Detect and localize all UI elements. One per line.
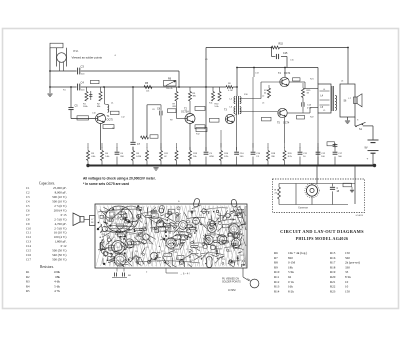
svg-text:0·1M: 0·1M — [136, 156, 141, 158]
svg-text:200 (4 V.): 200 (4 V.) — [54, 208, 67, 212]
svg-text:C11: C11 — [26, 231, 31, 235]
svg-text:R18: R18 — [330, 265, 336, 269]
svg-text:150: 150 — [345, 289, 350, 293]
svg-text:9V: 9V — [365, 146, 368, 149]
svg-text:R21: R21 — [330, 280, 336, 284]
svg-text:10: 10 — [345, 280, 349, 284]
svg-text:R3: R3 — [26, 280, 30, 284]
svg-text:OC75: OC75 — [107, 119, 114, 122]
svg-text:PHILIPS MODEL AG4026: PHILIPS MODEL AG4026 — [296, 236, 349, 241]
svg-text:330: 330 — [345, 265, 350, 269]
svg-text:540 (50 V.): 540 (50 V.) — [52, 253, 66, 257]
svg-text:C13: C13 — [26, 240, 32, 244]
svg-text:R6: R6 — [274, 251, 278, 255]
svg-text:10 M52: 10 M52 — [228, 290, 236, 292]
svg-text:C15: C15 — [283, 52, 288, 55]
svg-text:R8: R8 — [274, 261, 278, 265]
svg-text:68k: 68k — [55, 275, 60, 279]
svg-text:R15: R15 — [279, 43, 284, 46]
svg-text:0·1M: 0·1M — [288, 261, 295, 265]
svg-text:8·2k: 8·2k — [345, 275, 351, 279]
svg-text:AG4026: AG4026 — [355, 214, 364, 217]
svg-text:10k: 10k — [146, 91, 149, 93]
svg-text:0·15: 0·15 — [61, 213, 67, 217]
svg-text:R16: R16 — [330, 256, 336, 260]
svg-text:R17: R17 — [330, 261, 336, 265]
svg-text:33: 33 — [345, 270, 349, 274]
svg-text:R14: R14 — [274, 289, 280, 293]
svg-text:16k + 4k (log.): 16k + 4k (log.) — [288, 251, 307, 255]
svg-text:SOLDER POINTS: SOLDER POINTS — [222, 282, 241, 284]
svg-text:C16: C16 — [26, 253, 32, 257]
svg-text:500 (50 V.): 500 (50 V.) — [52, 257, 66, 261]
svg-text:C3: C3 — [81, 64, 85, 68]
svg-text:8·2k: 8·2k — [288, 289, 294, 293]
svg-text:500 (50 V.): 500 (50 V.) — [52, 249, 66, 253]
svg-text:R13: R13 — [274, 285, 280, 289]
svg-text:5·6k: 5·6k — [288, 270, 294, 274]
svg-text:2k (pre-set): 2k (pre-set) — [345, 261, 360, 265]
svg-text:Governor: Governor — [298, 206, 309, 209]
svg-text:OC74: OC74 — [284, 72, 291, 75]
svg-text:C5: C5 — [26, 204, 30, 208]
svg-text:+: + — [367, 156, 369, 160]
svg-text:2·5 (6 V.): 2·5 (6 V.) — [54, 217, 66, 221]
svg-text:R5: R5 — [26, 289, 30, 293]
svg-text:C4: C4 — [81, 80, 85, 84]
svg-text:R20: R20 — [330, 275, 336, 279]
svg-text:OC75A: OC75A — [181, 111, 189, 114]
svg-text:Resistors.: Resistors. — [40, 265, 54, 269]
svg-text:P.U.: P.U. — [74, 49, 79, 53]
svg-text:OC74: OC74 — [283, 121, 290, 124]
svg-text:100k: 100k — [54, 270, 61, 274]
svg-text:R9: R9 — [274, 265, 278, 269]
svg-text:C9: C9 — [26, 222, 30, 226]
svg-text:500 (10 V.): 500 (10 V.) — [52, 195, 66, 199]
svg-text:0·12: 0·12 — [61, 244, 67, 248]
svg-text:C8: C8 — [26, 217, 30, 221]
svg-text:16k: 16k — [288, 285, 293, 289]
svg-text:R1: R1 — [26, 270, 30, 274]
svg-text:10: 10 — [345, 285, 349, 289]
svg-text:C12: C12 — [26, 235, 32, 239]
svg-text:R11: R11 — [274, 275, 280, 279]
svg-text:C15: C15 — [26, 249, 32, 253]
svg-text:560: 560 — [345, 256, 350, 260]
svg-text:Viewed as solder points: Viewed as solder points — [72, 56, 103, 60]
svg-text:C1: C1 — [26, 186, 30, 190]
svg-text:CIRCUIT AND LAY-OUT DIAGRAM: CIRCUIT AND LAY-OUT DIAGRAMS — [280, 229, 364, 234]
svg-text:C10: C10 — [26, 226, 32, 230]
svg-text:R2: R2 — [26, 275, 30, 279]
svg-text:C17: C17 — [26, 257, 32, 261]
svg-text:Capacitors.: Capacitors. — [39, 181, 55, 185]
svg-text:* In some sets OC75 are used: * In some sets OC75 are used — [83, 182, 129, 186]
svg-text:C7: C7 — [26, 213, 30, 217]
svg-text:R19: R19 — [330, 270, 336, 274]
svg-text:→ 6 – 4 !: → 6 – 4 ! — [180, 273, 190, 276]
svg-text:4·6k: 4·6k — [54, 280, 60, 284]
svg-text:0·1k: 0·1k — [288, 280, 294, 284]
svg-text:5·6k: 5·6k — [54, 284, 60, 288]
svg-text:18k: 18k — [288, 265, 293, 269]
svg-text:C6: C6 — [26, 208, 30, 212]
svg-text:All voltages to check using a: All voltages to check using a 20,000Ω/V … — [83, 176, 156, 180]
svg-text:PU VIEWED ON: PU VIEWED ON — [222, 278, 239, 280]
svg-text:500 (10 V.): 500 (10 V.) — [52, 200, 66, 204]
svg-text:C3: C3 — [26, 195, 30, 199]
svg-text:C2: C2 — [26, 191, 30, 195]
svg-text:100 (4 V.): 100 (4 V.) — [54, 235, 67, 239]
svg-text:R22: R22 — [330, 285, 336, 289]
svg-text:820: 820 — [288, 256, 293, 260]
svg-text:2·5 (6 V.): 2·5 (6 V.) — [54, 204, 66, 208]
svg-text:62: 62 — [288, 275, 292, 279]
svg-text:2·5 (6 V.): 2·5 (6 V.) — [54, 226, 66, 230]
svg-text:150: 150 — [345, 251, 350, 255]
svg-text:R15: R15 — [330, 251, 336, 255]
svg-text:C14: C14 — [26, 244, 32, 248]
svg-text:16 (10 V.): 16 (10 V.) — [54, 231, 67, 235]
svg-text:R4: R4 — [26, 284, 30, 288]
svg-text:R23: R23 — [330, 289, 336, 293]
svg-text:C4: C4 — [26, 200, 30, 204]
svg-text:4·7k: 4·7k — [54, 289, 60, 293]
svg-text:R12: R12 — [274, 280, 280, 284]
svg-text:R10: R10 — [274, 270, 280, 274]
svg-text:0·1M: 0·1M — [228, 90, 233, 92]
svg-text:+: + — [178, 199, 180, 203]
svg-text:R7: R7 — [274, 256, 278, 260]
svg-text:16k+4k: 16k+4k — [166, 88, 173, 90]
